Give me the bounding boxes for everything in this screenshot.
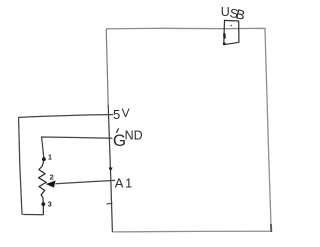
svg-text:5: 5 bbox=[113, 107, 120, 122]
potentiometer R1 (zigzag element) bbox=[39, 162, 47, 215]
wiper arrow (terminal 2) bbox=[46, 181, 56, 188]
terminal 3 junction dot bbox=[41, 202, 45, 206]
svg-text:ND: ND bbox=[125, 129, 143, 143]
board outline (microcontroller): top, right, bottom edges bbox=[106, 28, 271, 232]
pen blob at board bottom-right corner bbox=[270, 224, 272, 232]
svg-text:1: 1 bbox=[48, 153, 52, 162]
svg-text:A1: A1 bbox=[115, 176, 134, 191]
usb connector box bbox=[223, 20, 239, 45]
pin label 5V bbox=[113, 106, 130, 122]
USB label bbox=[221, 5, 247, 23]
pin label GND bbox=[113, 128, 143, 150]
terminal 1 junction dot bbox=[42, 157, 46, 161]
svg-text:V: V bbox=[122, 106, 130, 120]
board outline: left edge (drawn darker) bbox=[106, 29, 108, 105]
wire: 5V from board pin to left rail to pot bottom bbox=[19, 115, 114, 215]
svg-text:2: 2 bbox=[50, 173, 54, 182]
wire: A1 from board pin to wiper arrow bbox=[55, 180, 115, 183]
svg-text:B: B bbox=[234, 6, 246, 23]
wire: GND from board pin to pot terminal 1 bbox=[42, 137, 113, 162]
unlabeled pin tick on left edge bbox=[106, 202, 112, 205]
down arrow on board left edge bbox=[109, 168, 113, 172]
svg-text:3: 3 bbox=[48, 200, 52, 209]
